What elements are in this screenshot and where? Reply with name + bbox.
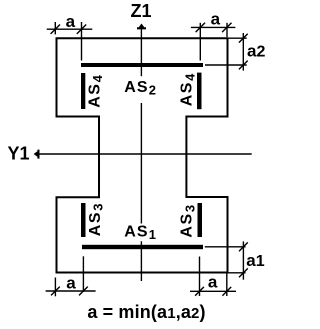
dimension a1 right-bottom: dimension line <box>242 241 244 279</box>
svg-text:AS2: AS2 <box>124 79 157 98</box>
svg-text:a: a <box>66 12 76 31</box>
svg-text:Y1: Y1 <box>8 144 30 164</box>
rebar AS4 right bar <box>197 73 202 110</box>
dimension a top-left: right tick <box>77 25 86 34</box>
dimension a top-right: dimension line <box>191 26 236 28</box>
dimension a2 right-top: top tick <box>239 34 248 43</box>
rebar AS3 left bar <box>81 203 86 237</box>
dimension a2 right-top: leader line from AS2 bar <box>205 64 247 66</box>
svg-text:AS4: AS4 <box>179 72 198 106</box>
rebar AS3 right bar <box>198 203 203 237</box>
dimension a top-left: left extension line <box>54 22 56 34</box>
dimension a1 right-bottom: leader line from AS1 bar <box>205 246 246 248</box>
dimension a bottom-left: left extension line <box>54 278 56 297</box>
svg-text:Z1: Z1 <box>130 1 151 21</box>
axis Y1 arrowhead <box>34 150 40 159</box>
dimension a top-right: left extension line <box>199 23 201 61</box>
dimension a top-left: left tick <box>51 25 60 34</box>
dimension a bottom-left: right tick <box>79 287 88 296</box>
dimension a top-right: right extension line <box>226 23 228 37</box>
rebar AS1 bar <box>82 245 203 249</box>
svg-text:AS4: AS4 <box>86 74 105 108</box>
rebar AS2 bar <box>81 63 203 67</box>
section outline <box>57 38 228 272</box>
dimension a bottom-right: right tick <box>222 287 231 296</box>
dimension a top-left: right extension line <box>81 22 83 61</box>
rebar AS4 left bar <box>81 73 85 109</box>
dimension a bottom-right: left extension line <box>199 257 201 297</box>
axis Y1 line <box>37 153 252 155</box>
svg-text:a: a <box>208 272 218 291</box>
dimension a bottom-right: dimension line <box>190 290 236 292</box>
axis Z1 line (lower segment) <box>140 241 142 281</box>
svg-text:a1: a1 <box>246 251 264 270</box>
svg-text:a = min(a1,a2): a = min(a1,a2) <box>87 302 205 322</box>
axis Z1 arrowhead <box>137 24 146 30</box>
dimension a bottom-left: dimension line <box>46 290 96 292</box>
dimension a2 right-top: bottom tick <box>239 61 248 70</box>
svg-text:a: a <box>211 9 221 28</box>
dimension a top-right: left tick <box>196 23 205 32</box>
dimension a2 right-top: top extension line <box>229 37 247 39</box>
dimension a top-left: dimension line <box>47 28 93 30</box>
svg-text:a2: a2 <box>247 41 265 60</box>
dimension a1 right-bottom: top tick <box>239 242 248 251</box>
svg-text:AS3: AS3 <box>87 202 106 236</box>
svg-text:AS3: AS3 <box>179 203 198 237</box>
dimension a top-right: right tick <box>222 23 231 32</box>
dimension a bottom-right: left tick <box>195 287 204 296</box>
dimension a bottom-left: left tick <box>51 287 60 296</box>
axis Z1 line (upper segment) <box>140 27 142 76</box>
dimension a2 right-top: dimension line <box>242 33 244 71</box>
dimension a bottom-right: right extension line <box>226 274 228 297</box>
svg-text:a: a <box>66 274 76 293</box>
svg-text:AS1: AS1 <box>124 223 157 242</box>
dimension a1 right-bottom: bottom extension line <box>229 272 246 274</box>
dimension a1 right-bottom: bottom tick <box>239 268 248 277</box>
dimension a bottom-left: right extension line <box>82 256 84 292</box>
axis Z1 line (middle segment) <box>140 103 142 224</box>
